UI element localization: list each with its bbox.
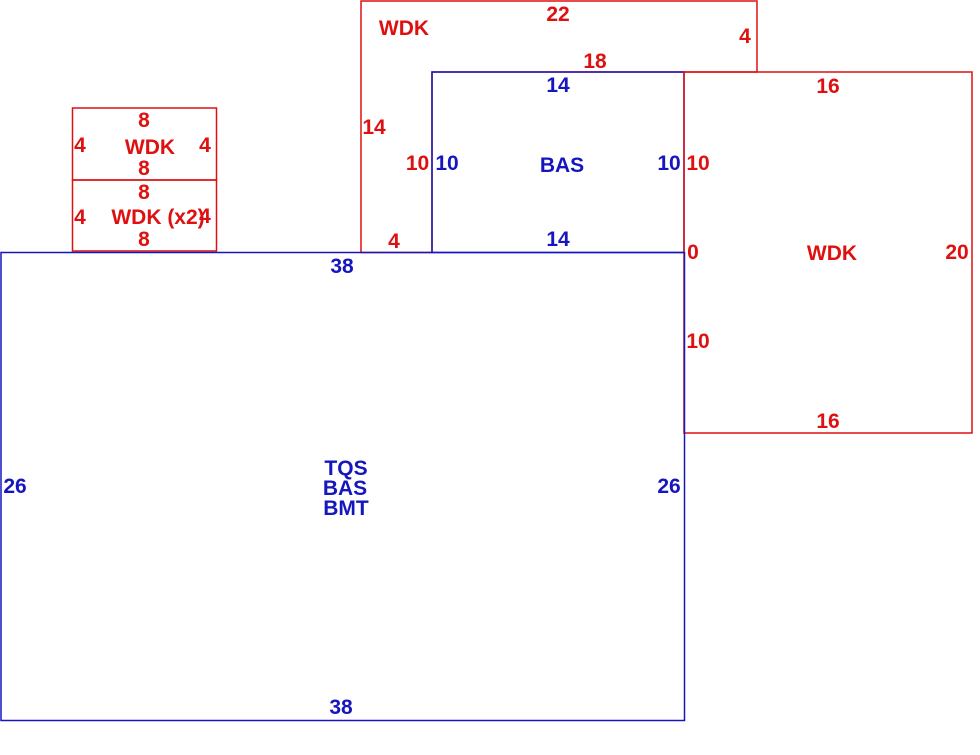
svg-text:4: 4 xyxy=(199,205,211,228)
svg-text:4: 4 xyxy=(74,134,86,157)
svg-text:4: 4 xyxy=(199,134,211,157)
svg-text:26: 26 xyxy=(3,475,26,498)
svg-text:16: 16 xyxy=(816,75,839,98)
svg-text:18: 18 xyxy=(583,50,607,73)
svg-text:8: 8 xyxy=(138,157,150,180)
svg-text:8: 8 xyxy=(138,228,150,251)
svg-text:20: 20 xyxy=(945,241,968,264)
svg-text:10: 10 xyxy=(686,330,709,353)
svg-text:0: 0 xyxy=(687,241,699,264)
svg-text:16: 16 xyxy=(816,410,839,433)
svg-text:38: 38 xyxy=(329,696,353,719)
svg-text:10: 10 xyxy=(657,152,680,175)
deck WDK (right) rectangle outline xyxy=(684,72,972,433)
svg-text:WDK: WDK xyxy=(379,17,429,40)
deck WDK (x2) (small lower) rectangle outline xyxy=(73,180,217,251)
svg-text:10: 10 xyxy=(406,152,429,175)
svg-text:10: 10 xyxy=(435,152,458,175)
svg-text:26: 26 xyxy=(657,475,680,498)
svg-text:8: 8 xyxy=(138,181,150,204)
deck WDK (top) polygon outline xyxy=(361,1,757,253)
svg-text:4: 4 xyxy=(74,206,86,229)
svg-text:WDK (x2): WDK (x2) xyxy=(111,206,204,229)
svg-text:14: 14 xyxy=(362,116,386,139)
room BAS rectangle outline xyxy=(432,72,684,253)
svg-text:14: 14 xyxy=(546,74,570,97)
svg-text:10: 10 xyxy=(686,152,709,175)
svg-text:4: 4 xyxy=(388,230,400,253)
svg-text:BMT: BMT xyxy=(323,497,369,520)
svg-text:38: 38 xyxy=(330,255,354,278)
svg-text:14: 14 xyxy=(546,228,570,251)
svg-text:22: 22 xyxy=(546,3,569,26)
svg-text:4: 4 xyxy=(739,25,751,48)
main house TQS/BAS/BMT rectangle outline xyxy=(1,253,685,721)
svg-text:WDK: WDK xyxy=(807,242,857,265)
svg-text:8: 8 xyxy=(138,109,150,132)
svg-text:WDK: WDK xyxy=(125,136,175,159)
deck WDK (small upper) rectangle outline xyxy=(73,108,217,180)
svg-text:BAS: BAS xyxy=(540,154,584,177)
